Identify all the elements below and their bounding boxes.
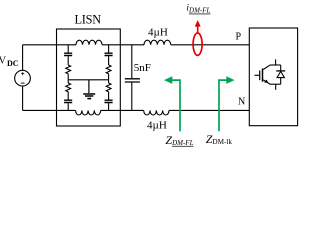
- wire: Vdc top lead: [22, 45, 24, 71]
- wire: C3 to R3: [108, 56, 110, 65]
- svg-text:ZDM-FL: ZDM-FL: [165, 133, 193, 147]
- svg-text:V: V: [0, 56, 7, 67]
- capacitor C3 plates: [105, 53, 113, 55]
- wire: bottom rail LISN coil to 4uH bottom coil: [101, 109, 144, 111]
- resistor R4 zigzag: [106, 83, 111, 92]
- wire: LISN middle ground rail: [68, 79, 108, 81]
- wire: C2 to bottom rail: [67, 103, 69, 110]
- wire: Vdc bottom lead: [22, 86, 24, 110]
- capacitor C1 plates: [64, 53, 72, 55]
- svg-text:LISN: LISN: [75, 12, 102, 26]
- diode D1 triangle: [277, 71, 284, 77]
- wire: 5nF top lead: [131, 45, 133, 78]
- wire: R4 to C4: [108, 92, 110, 100]
- minus sign inside Vdc: [21, 82, 25, 84]
- LISN box: [57, 29, 121, 126]
- IGBT Q1 top stub: [275, 59, 277, 65]
- svg-text:ZDM-lk: ZDM-lk: [206, 132, 233, 146]
- IGBT Q1 body bar: [262, 69, 264, 82]
- plus sign inside Vdc: [21, 72, 24, 75]
- diode D1 cathode bar: [276, 70, 285, 72]
- ground symbol: [83, 94, 95, 99]
- svg-text:5nF: 5nF: [134, 62, 151, 74]
- current arrow (red): [197, 26, 199, 33]
- wire: ground stem: [88, 80, 90, 93]
- inductor LISN top coil: [76, 40, 102, 45]
- source Vdc circle: [15, 70, 31, 86]
- resistor R1 zigzag: [66, 65, 71, 74]
- diode D1 anode lead: [280, 78, 282, 85]
- arrow Z DM-FL (green, up then left): [172, 80, 180, 131]
- IGBT Q1 gate lead: [255, 74, 260, 76]
- svg-text:4µH: 4µH: [147, 119, 167, 131]
- inductor L2 4uH bottom coil: [144, 110, 169, 115]
- wire: left branch top: [67, 45, 69, 53]
- resistor R2 zigzag: [66, 83, 71, 92]
- svg-text:P: P: [236, 31, 242, 42]
- svg-text:iDM-FL: iDM-FL: [186, 3, 210, 14]
- svg-text:DC: DC: [7, 59, 19, 68]
- IGBT Q1 bottom stub: [275, 84, 277, 90]
- wire: top rail from Vdc corner to LISN top coil: [23, 44, 76, 46]
- diode D1 cathode lead: [280, 65, 282, 70]
- wire: mid rail to R4: [108, 80, 110, 83]
- inductor L1 4uH top coil: [144, 40, 171, 45]
- IGBT Q1 bottom inner rail: [270, 83, 281, 85]
- capacitor C4 plates: [105, 100, 113, 102]
- wire: right branch top: [108, 45, 110, 53]
- IGBT Q1 collector diagonal: [263, 65, 270, 70]
- wire: bottom rail 4uH to converter: [169, 109, 249, 111]
- capacitor C5 5nF plates: [125, 79, 140, 82]
- wire: 5nF bottom lead: [131, 83, 133, 111]
- wire: top rail LISN coil to 4uH coil: [102, 44, 144, 46]
- wire: top rail 4uH to converter: [171, 44, 250, 46]
- wire: mid rail to R2: [67, 80, 69, 83]
- converter box: [249, 28, 297, 126]
- svg-text:N: N: [238, 97, 245, 108]
- svg-text:4µH: 4µH: [148, 27, 168, 39]
- IGBT Q1 top inner rail: [270, 64, 281, 66]
- wire: bottom rail from Vdc corner to LISN bottom coil: [23, 109, 76, 111]
- wire: R2 to C2: [67, 92, 69, 100]
- wire: C4 to bottom rail: [108, 103, 110, 110]
- resistor R3 zigzag: [106, 65, 111, 74]
- IGBT Q1 gate bar: [259, 71, 261, 81]
- current probe ellipse (red): [193, 33, 202, 55]
- capacitor C2 plates: [64, 100, 72, 102]
- inductor LISN bottom coil: [76, 110, 101, 115]
- wire: C1 to R1: [67, 56, 69, 65]
- wire: R3 to mid rail: [108, 74, 110, 80]
- arrow Z DM-lk (green, up then right): [219, 80, 227, 131]
- IGBT Q1 emitter diagonal with arrow: [263, 80, 270, 85]
- wire: R1 to mid rail: [67, 74, 69, 80]
